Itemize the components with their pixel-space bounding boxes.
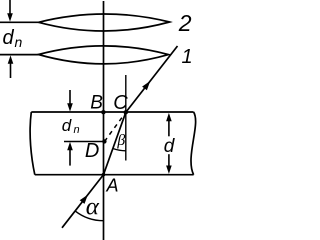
svg-text:1: 1: [182, 46, 193, 68]
svg-text:d: d: [164, 136, 176, 157]
svg-text:α: α: [86, 193, 100, 220]
svg-text:n: n: [74, 124, 80, 136]
svg-text:D: D: [85, 140, 99, 162]
svg-text:n: n: [15, 34, 23, 50]
svg-text:2: 2: [178, 10, 192, 36]
svg-text:β: β: [116, 132, 125, 149]
svg-text:A: A: [106, 176, 119, 196]
svg-text:d: d: [62, 116, 72, 135]
svg-text:C: C: [113, 92, 128, 114]
svg-text:d: d: [3, 27, 15, 49]
svg-text:B: B: [90, 93, 103, 114]
